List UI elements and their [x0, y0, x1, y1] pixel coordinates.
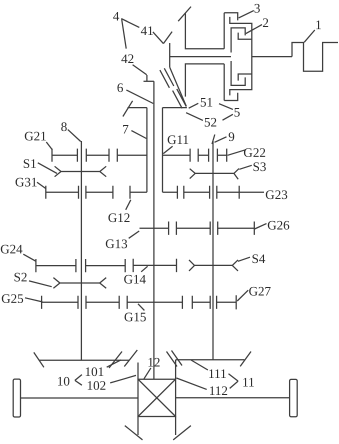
leader G22 [228, 150, 246, 156]
clutch hub lower finger [231, 61, 245, 85]
gear G23 segment [217, 186, 239, 199]
svg-text:G12: G12 [108, 210, 130, 225]
svg-text:1: 1 [315, 17, 322, 32]
gear on shaft 9 row1 [198, 149, 208, 162]
svg-text:51: 51 [200, 95, 213, 110]
leader S4 [238, 257, 250, 261]
synchronizer S4 [189, 260, 238, 271]
leader S2 [29, 281, 52, 287]
damper lower spring box [185, 64, 224, 97]
shaft 8 [80, 141, 82, 360]
synchronizer S2 [53, 278, 106, 289]
bracket 5 lower [223, 114, 233, 120]
leader 111 [191, 360, 208, 370]
svg-text:8: 8 [61, 119, 68, 134]
hollow input shaft [162, 108, 164, 193]
svg-text:G23: G23 [265, 187, 287, 202]
leader 12 [144, 368, 151, 379]
svg-text:2: 2 [262, 15, 269, 30]
bracket 11 [229, 374, 239, 389]
leader G31 [37, 182, 46, 188]
tick on right bar end [240, 352, 251, 367]
clutch drum left wall upper [223, 13, 225, 49]
gear G22 segment [217, 149, 226, 162]
differential box 12 [138, 379, 176, 416]
leader 101 [107, 360, 121, 367]
flywheel disc 41 [169, 43, 171, 67]
svg-text:42: 42 [121, 51, 134, 66]
bracket 10 [75, 375, 82, 386]
clutch hub upper finger [231, 28, 245, 53]
row3 right segment a [163, 186, 178, 199]
svg-text:5: 5 [234, 105, 241, 120]
gear G12 segment [130, 186, 147, 199]
leader 4 to 42 [122, 19, 127, 48]
final drive left bar [39, 359, 129, 361]
shaft 6 [153, 81, 155, 379]
item 42 arm [144, 80, 154, 82]
svg-text:4: 4 [113, 8, 120, 23]
gear G14 segment [133, 259, 176, 272]
svg-text:G25: G25 [1, 291, 23, 306]
leader 52 [186, 113, 203, 121]
leader 6 [126, 90, 153, 104]
tick on disc top [163, 32, 172, 44]
svg-text:11: 11 [242, 375, 255, 390]
tick on left bar end [34, 352, 44, 367]
svg-text:G14: G14 [124, 271, 147, 286]
tick on shaft 7 arm [123, 101, 133, 117]
clutch 52 slash pair [173, 89, 187, 108]
svg-text:10: 10 [57, 373, 70, 388]
svg-text:6: 6 [117, 80, 124, 95]
svg-text:S3: S3 [253, 159, 267, 174]
tick on damper top-left [178, 7, 191, 22]
gear G11 segment [163, 149, 191, 162]
svg-text:3: 3 [254, 1, 261, 16]
synchronizer S1 [55, 166, 107, 176]
gear G25 row segment A [42, 296, 78, 309]
gear G21 row segment B [86, 149, 109, 162]
axle left [21, 397, 139, 399]
clutch chain diagonal [170, 67, 187, 106]
svg-text:12: 12 [147, 354, 160, 369]
leader 51 [189, 103, 199, 108]
svg-text:111: 111 [208, 366, 227, 381]
svg-text:52: 52 [204, 115, 217, 130]
clutch drum left wall lower [223, 64, 225, 101]
shaft 9 [212, 141, 214, 360]
svg-text:101: 101 [85, 364, 105, 379]
clutch drum 3 bottom plate [224, 93, 238, 101]
svg-text:7: 7 [122, 121, 129, 136]
svg-text:G26: G26 [267, 218, 290, 233]
svg-text:G22: G22 [243, 145, 265, 160]
leader G11 [163, 146, 172, 153]
gear G21 row segment A [52, 149, 77, 162]
item 42 nub [146, 75, 148, 81]
gear G24 row segment A [36, 259, 76, 272]
leader 3 [239, 11, 254, 18]
shaft 7 [146, 108, 148, 193]
clutch 51 slash pair [160, 68, 174, 88]
leader G25 [25, 298, 42, 302]
differential leg right [175, 417, 177, 436]
clutch inner drum 2 shell [230, 17, 252, 96]
leader 4 to 41 [121, 19, 139, 28]
gear G15 segment [127, 296, 182, 309]
leader 8 [68, 130, 81, 142]
right wheel [290, 379, 298, 416]
leader 112 [176, 378, 206, 389]
svg-text:G27: G27 [249, 284, 272, 299]
svg-text:9: 9 [228, 129, 235, 144]
clutch output line [252, 56, 292, 58]
G23 line into label [239, 191, 264, 193]
shaft 7 top arm [128, 107, 147, 109]
crankshaft symbol 1 [292, 43, 338, 72]
leader G26 [255, 224, 267, 229]
leader G21 [46, 142, 52, 150]
leader 102 [110, 375, 136, 383]
svg-text:S2: S2 [14, 269, 28, 284]
leader G13 [129, 231, 140, 238]
leader G27 [237, 290, 248, 301]
svg-text:S4: S4 [252, 251, 266, 266]
leader G24 [23, 254, 36, 261]
svg-text:G11: G11 [167, 132, 189, 147]
svg-text:102: 102 [87, 378, 107, 393]
right mesh slash pair 111 112 [167, 351, 183, 367]
damper upper spring box [185, 14, 224, 49]
hollow input shaft top arm [163, 107, 187, 109]
tick on shaft 9 top [212, 135, 215, 145]
leader G12 [126, 200, 131, 210]
left mesh slash pair 101 102 [109, 350, 137, 368]
svg-text:S1: S1 [23, 156, 37, 171]
row5 right segment [192, 296, 210, 309]
leader 1 [304, 30, 315, 42]
svg-text:G31: G31 [15, 174, 37, 189]
leader 2 [246, 25, 262, 34]
leader G14 [141, 266, 147, 272]
leader 9 [215, 137, 227, 143]
svg-text:G13: G13 [105, 236, 127, 251]
box right wall extension [175, 360, 177, 379]
leader S1 [38, 163, 57, 174]
leader 41 [153, 32, 164, 44]
gear G31 row segment A [46, 186, 79, 199]
left wheel [13, 379, 20, 417]
gear G31 row segment B [86, 186, 113, 199]
clutch drum 3 top plate [224, 13, 238, 21]
tick on right leg [173, 426, 191, 440]
svg-text:G15: G15 [124, 309, 146, 324]
bracket 5 upper [219, 104, 233, 110]
svg-text:112: 112 [209, 383, 228, 398]
engine crank input line [170, 56, 231, 58]
gear G13 segment [140, 222, 169, 235]
gear G24 row segment B [86, 259, 126, 272]
svg-text:41: 41 [141, 23, 154, 38]
leader 7 [131, 131, 146, 139]
leader G15 [138, 304, 144, 311]
svg-text:G24: G24 [0, 241, 23, 256]
tick on left leg [125, 426, 143, 440]
final drive right bar [176, 359, 245, 361]
synchronizer S3 [190, 169, 239, 180]
row3b middle segment [176, 222, 210, 235]
differential cross [138, 379, 176, 416]
gear G25 row segment B [86, 296, 119, 309]
svg-text:G21: G21 [24, 128, 46, 143]
gear G21 row segment C to shaft 7 [117, 149, 147, 162]
box left wall extension [137, 363, 139, 380]
leader S3 [239, 165, 252, 169]
clutch plate nub lower [238, 74, 252, 81]
row3 right segment b [184, 186, 210, 199]
gear G26 segment [218, 222, 255, 235]
differential leg left [137, 417, 139, 436]
leader 42 [133, 65, 147, 75]
clutch plate nub upper [238, 33, 252, 40]
gear G27 segment [217, 295, 237, 309]
axle right [176, 397, 290, 399]
